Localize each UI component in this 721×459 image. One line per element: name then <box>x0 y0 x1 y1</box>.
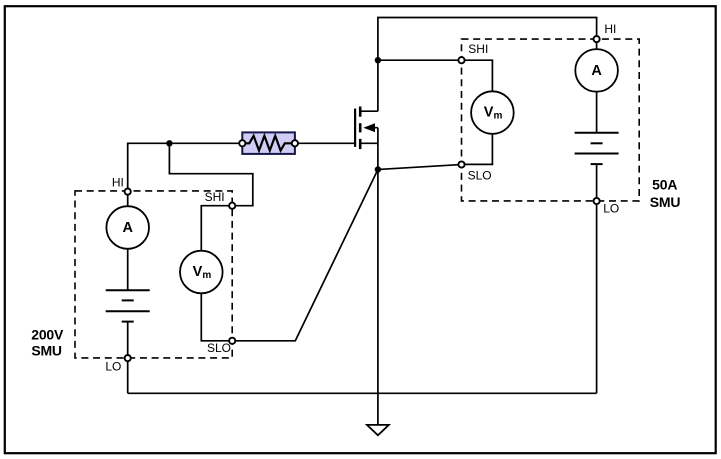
svg-text:200V: 200V <box>31 326 64 342</box>
ammeter A of 50A SMU <box>575 49 618 92</box>
svg-text:SHI: SHI <box>205 190 225 204</box>
resistor R1 gate resistor <box>242 132 295 154</box>
voltmeter Vm of 50A SMU <box>471 91 514 134</box>
MOSFET Q1 <box>355 107 378 170</box>
svg-text:SMU: SMU <box>31 342 62 358</box>
wire: ammeter to battery of 50A SMU <box>596 92 598 133</box>
svg-text:SLO: SLO <box>468 168 492 182</box>
svg-text:LO: LO <box>603 201 619 215</box>
wire: drain of Q1 up and over to 50A SMU HI <box>378 18 597 112</box>
terminal LO of 200V SMU <box>125 355 131 361</box>
svg-text:SMU: SMU <box>650 194 681 210</box>
battery V2 of 50A SMU <box>575 133 619 164</box>
wire: Vm bottom lead to SLO of 200V SMU <box>201 293 229 341</box>
svg-text:V: V <box>193 264 203 280</box>
junction: drain node <box>375 57 381 63</box>
svg-text:SHI: SHI <box>468 42 488 56</box>
wire: source node to 200V SMU SLO <box>235 170 378 341</box>
wire: LO of 200V SMU down to ground bus <box>127 361 129 393</box>
battery V1 of 200V SMU <box>106 290 150 321</box>
svg-text:A: A <box>591 63 602 79</box>
svg-text:50A: 50A <box>652 176 677 192</box>
50A SMU enclosure <box>462 39 640 201</box>
terminal SHI of 200V SMU <box>229 203 235 209</box>
wire: HI to ammeter of 200V SMU <box>127 195 129 206</box>
wire: SHI of 50A SMU to Vm <box>465 60 493 91</box>
wire: battery to LO of 50A SMU <box>596 164 598 198</box>
terminal SHI of 50A SMU <box>458 57 464 63</box>
terminal SLO of 50A SMU <box>458 161 464 167</box>
junction: gate sense tap <box>166 140 172 146</box>
wire: gate sense tap down to SHI of 200V SMU <box>169 143 252 205</box>
200V SMU enclosure <box>75 191 232 358</box>
wire: source node to SLO of 50A SMU <box>378 165 459 170</box>
wire: 200V SMU HI up to gate resistor <box>128 143 240 188</box>
terminal: resistor right <box>292 140 298 146</box>
voltmeter Vm of 200V SMU <box>180 251 223 294</box>
svg-text:LO: LO <box>105 360 121 374</box>
wire: Vm top lead to SHI of 200V SMU <box>201 206 229 251</box>
wire: ground bus LO to LO <box>128 392 597 394</box>
svg-text:m: m <box>202 270 211 281</box>
terminal HI of 50A SMU <box>594 36 600 42</box>
wire: ground bus up to LO of 50A SMU <box>596 204 598 393</box>
svg-text:A: A <box>122 220 133 236</box>
wire: drain node to SHI of 50A SMU <box>378 59 459 61</box>
wire: resistor to gate of Q1 <box>298 142 355 144</box>
terminal: resistor left <box>239 140 245 146</box>
ammeter A of 200V SMU <box>106 206 149 249</box>
svg-text:m: m <box>494 110 503 121</box>
wire: ammeter to battery of 200V SMU <box>127 249 129 290</box>
terminal LO of 50A SMU <box>594 198 600 204</box>
terminal SLO of 200V SMU <box>229 338 235 344</box>
ground <box>367 425 389 435</box>
svg-text:HI: HI <box>604 22 616 36</box>
wire: source node down to ground <box>377 170 379 425</box>
svg-text:V: V <box>484 104 494 120</box>
junction: source node <box>375 166 381 172</box>
wire: Vm to SLO of 50A SMU <box>465 134 493 165</box>
wire: HI to ammeter of 50A SMU <box>596 42 598 49</box>
terminal HI of 200V SMU <box>125 189 131 195</box>
svg-text:HI: HI <box>112 175 124 189</box>
svg-text:SLO: SLO <box>207 341 231 355</box>
wire: battery to LO of 200V SMU <box>127 322 129 355</box>
